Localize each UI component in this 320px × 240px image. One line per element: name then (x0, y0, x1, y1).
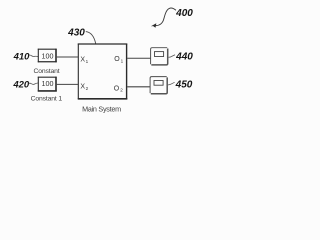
svg-text:2: 2 (120, 88, 123, 93)
display block 450 (150, 77, 167, 94)
svg-text:440: 440 (175, 52, 193, 63)
svg-text:430: 430 (67, 28, 85, 39)
constant block 2 (38, 77, 57, 92)
svg-text:1: 1 (121, 58, 124, 63)
svg-text:100: 100 (42, 51, 54, 60)
display block 440 (151, 48, 168, 65)
svg-text:Constant 1: Constant 1 (31, 95, 63, 102)
leader 410 (29, 55, 38, 57)
leader 420 (29, 83, 38, 84)
display 440 screen (155, 52, 164, 57)
leader 450 (168, 82, 175, 84)
svg-text:2: 2 (86, 86, 89, 91)
svg-text:O: O (114, 56, 120, 63)
leader line 430 (86, 32, 96, 44)
svg-text:O: O (114, 85, 120, 92)
svg-text:1: 1 (86, 59, 89, 64)
leader arrow for 400 (154, 8, 176, 26)
wire O1 to display 440 (127, 57, 150, 59)
display 450 screen (154, 81, 163, 86)
svg-text:410: 410 (13, 52, 31, 63)
svg-text:450: 450 (175, 79, 193, 90)
svg-text:Constant: Constant (33, 68, 59, 75)
wire constant1 to X1 (57, 56, 78, 58)
arrowhead 400 (151, 23, 156, 28)
main system block (78, 44, 128, 100)
wire O2 to display 450 (127, 86, 150, 88)
svg-text:420: 420 (12, 79, 30, 90)
leader 440 (169, 55, 176, 58)
wire constant2 to X2 (57, 83, 78, 85)
svg-text:100: 100 (42, 79, 54, 88)
svg-text:400: 400 (175, 8, 193, 19)
constant block 1 (38, 49, 57, 63)
svg-text:Main System: Main System (82, 105, 121, 114)
